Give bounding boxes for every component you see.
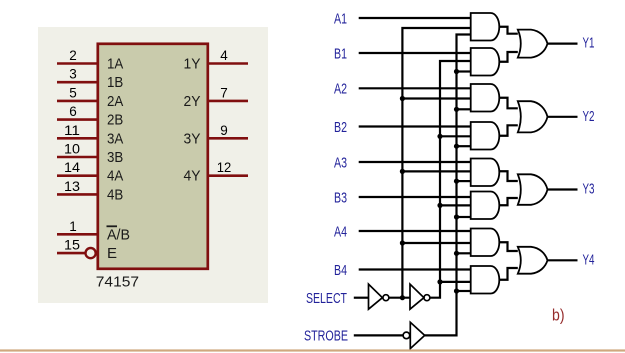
select rail (output of second inverter) xyxy=(430,61,471,298)
pin 15 inversion bubble xyxy=(86,248,96,258)
AND gate 7 (A4) xyxy=(471,229,500,257)
pin 10 wire xyxy=(57,156,97,159)
junction dot strobe/AND4 xyxy=(454,144,459,149)
svg-text:Y4: Y4 xyxy=(583,251,595,268)
svg-text:STROBE: STROBE xyxy=(304,328,348,345)
input wire B4 xyxy=(359,268,471,270)
svg-text:E: E xyxy=(107,245,117,262)
junction dot select-bar/A3 xyxy=(400,169,405,174)
junction dot strobe/AND3 xyxy=(454,107,459,112)
svg-text:1Y: 1Y xyxy=(184,56,201,73)
AND6 output step to OR3 xyxy=(499,198,518,205)
select feed to gate B3 xyxy=(440,204,471,206)
strobe feed to AND3 xyxy=(457,108,471,110)
output wire Y1 xyxy=(548,42,578,44)
AND5 output step to OR3 xyxy=(499,171,518,181)
svg-text:A3: A3 xyxy=(334,154,347,171)
svg-text:Y2: Y2 xyxy=(583,108,595,125)
bottom separator rule xyxy=(0,349,625,351)
SELECT input wire xyxy=(354,297,369,299)
junction dot select/B3 xyxy=(437,203,442,208)
input wire B1 xyxy=(359,52,471,54)
select-bar rail (output of first inverter) xyxy=(402,28,470,298)
svg-text:A4: A4 xyxy=(334,223,347,240)
svg-text:2Y: 2Y xyxy=(184,93,201,110)
OR gate 2 (Y2) xyxy=(518,101,548,132)
svg-text:B4: B4 xyxy=(334,262,347,279)
svg-text:1A: 1A xyxy=(107,56,123,73)
svg-text:Y1: Y1 xyxy=(583,35,595,52)
junction dot strobe/AND5 xyxy=(454,179,459,184)
pin 6 wire xyxy=(57,118,97,121)
select feed to gate B4 xyxy=(440,281,471,283)
input wire A4 xyxy=(359,230,471,232)
junction dot select/B2 xyxy=(437,134,442,139)
AND8 output step to OR4 xyxy=(499,268,518,280)
pin 9 wire xyxy=(209,137,248,140)
svg-text:A/B: A/B xyxy=(107,226,130,243)
AND gate 1 (A1) xyxy=(471,13,500,41)
svg-text:4B: 4B xyxy=(107,186,123,203)
svg-text:6: 6 xyxy=(69,104,77,119)
strobe feed to AND2 xyxy=(457,70,471,72)
inverter 1 (SELECT) xyxy=(369,284,383,309)
svg-text:11: 11 xyxy=(64,123,80,138)
OR gate 3 (Y3) xyxy=(518,174,548,205)
svg-text:4: 4 xyxy=(220,48,228,63)
AND2 output step to OR1 xyxy=(499,52,518,62)
select-bar feed to gate A4 xyxy=(402,242,470,244)
AND gate 5 (A3) xyxy=(471,159,500,187)
OR gate 1 (Y1) xyxy=(518,30,548,58)
STROBE input wire xyxy=(354,334,403,336)
AND gate 8 (B4) xyxy=(471,266,500,294)
junction dot strobe/AND6 xyxy=(454,214,459,219)
AND3 output step to OR2 xyxy=(499,98,518,109)
output wire Y2 xyxy=(548,116,578,118)
svg-text:5: 5 xyxy=(69,85,77,100)
junction dot strobe/AND2 xyxy=(454,69,459,74)
pin 14 wire xyxy=(57,174,97,177)
wire between inverter1 and inverter2 xyxy=(389,297,410,299)
svg-text:74157: 74157 xyxy=(96,274,139,291)
svg-text:2: 2 xyxy=(69,48,77,63)
svg-text:A2: A2 xyxy=(334,81,347,98)
strobe feed to AND8 xyxy=(457,290,471,292)
AND1 output step to OR1 xyxy=(499,27,518,34)
strobe rail (output of strobe inverter) xyxy=(425,35,471,336)
svg-text:1B: 1B xyxy=(107,74,123,91)
inverter 3 (STROBE, input bubble) xyxy=(403,332,410,339)
svg-text:9: 9 xyxy=(220,123,228,138)
junction dot select/B4 xyxy=(437,279,442,284)
output wire Y4 xyxy=(548,259,578,261)
AND4 output step to OR2 xyxy=(499,125,518,135)
IC body 74157 xyxy=(98,44,208,269)
svg-text:3B: 3B xyxy=(107,149,123,166)
AND gate 2 (B1) xyxy=(471,48,500,76)
strobe feed to AND7 xyxy=(457,252,471,254)
junction dot select-bar/A4 xyxy=(400,240,405,245)
input wire A3 xyxy=(359,161,471,163)
AND gate 6 (B3) xyxy=(471,192,500,220)
svg-text:10: 10 xyxy=(64,142,80,157)
svg-text:1: 1 xyxy=(69,219,77,234)
pin 15 wire xyxy=(57,252,85,255)
svg-text:B1: B1 xyxy=(334,45,347,62)
svg-text:B3: B3 xyxy=(334,189,347,206)
svg-text:4A: 4A xyxy=(107,168,123,185)
output wire Y3 xyxy=(548,188,578,190)
svg-text:3: 3 xyxy=(69,67,77,82)
AND gate 4 (B2) xyxy=(471,122,500,150)
pin 2 wire xyxy=(57,62,97,65)
select-bar feed to gate A2 xyxy=(402,97,470,99)
junction dot strobe/AND8 xyxy=(454,288,459,293)
pin 4 wire xyxy=(209,62,248,65)
AND7 output step to OR4 xyxy=(499,242,518,251)
select-bar feed to gate A3 xyxy=(402,170,470,172)
junction dot strobe/AND7 xyxy=(454,251,459,256)
pin 12 wire xyxy=(209,174,248,177)
pin 7 wire xyxy=(209,100,248,103)
junction dot select-bar/A2 xyxy=(400,96,405,101)
pin 5 wire xyxy=(57,100,97,103)
svg-text:2A: 2A xyxy=(107,93,123,110)
input wire B3 xyxy=(359,196,471,198)
select feed to gate B2 xyxy=(440,135,471,137)
pin 3 wire xyxy=(57,81,97,84)
pin 11 wire xyxy=(57,137,97,140)
input wire B2 xyxy=(359,125,471,127)
svg-text:2B: 2B xyxy=(107,112,123,129)
input wire A1 xyxy=(359,17,471,19)
AND gate 3 (A2) xyxy=(471,84,500,112)
svg-text:b): b) xyxy=(552,307,565,325)
svg-text:15: 15 xyxy=(64,238,80,253)
OR gate 4 (Y4) xyxy=(518,247,548,274)
svg-text:14: 14 xyxy=(64,160,81,175)
svg-text:7: 7 xyxy=(220,85,228,100)
junction dot select-bar source xyxy=(400,295,405,300)
strobe feed to AND4 xyxy=(457,145,471,147)
svg-text:12: 12 xyxy=(217,160,232,175)
svg-text:Y3: Y3 xyxy=(583,181,595,198)
svg-text:B2: B2 xyxy=(334,119,347,136)
inverter 2 (SELECT second) xyxy=(410,284,424,309)
svg-text:3Y: 3Y xyxy=(184,130,201,147)
svg-text:A1: A1 xyxy=(334,10,347,27)
pin 1 wire xyxy=(57,233,97,236)
input wire A2 xyxy=(359,87,471,89)
svg-text:SELECT: SELECT xyxy=(306,290,347,307)
strobe feed to AND6 xyxy=(457,216,471,218)
strobe feed to AND5 xyxy=(457,180,471,182)
svg-text:4Y: 4Y xyxy=(184,168,201,185)
svg-text:13: 13 xyxy=(64,179,80,194)
panel background (left schematic editor area) xyxy=(38,27,268,303)
svg-text:3A: 3A xyxy=(107,130,123,147)
pin 13 wire xyxy=(57,193,97,196)
